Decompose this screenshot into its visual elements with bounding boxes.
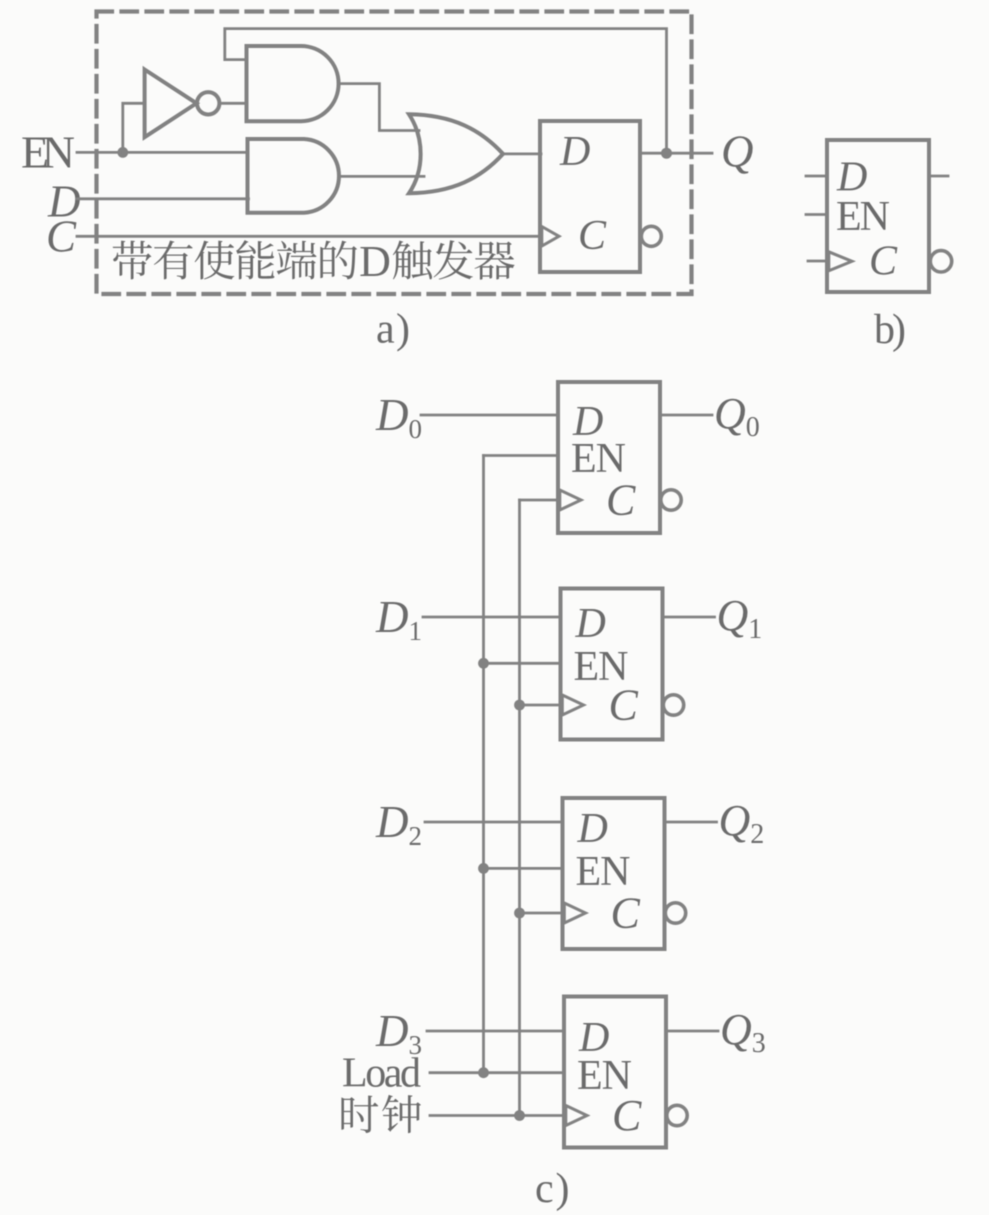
junction C bus node FF3 bbox=[514, 1110, 525, 1121]
svg-text:C: C bbox=[606, 476, 636, 525]
C bus vertical wire bbox=[518, 500, 521, 1116]
wire Q1 output bbox=[663, 616, 715, 619]
wire clock input bbox=[430, 1114, 564, 1117]
junction EN bus node FF3 bbox=[478, 1067, 489, 1078]
D flip-flop FF1 box (register) bbox=[561, 589, 663, 740]
wire OR G4 output to FF1 D bbox=[503, 152, 541, 155]
wire D0 input bbox=[421, 414, 558, 417]
svg-text:D: D bbox=[559, 129, 590, 175]
FF1 clock edge triangle bbox=[542, 227, 559, 247]
D flip-flop FF2 box (register) bbox=[563, 798, 665, 949]
wire AND G2 output to OR G4 bbox=[339, 84, 419, 131]
FF0 inverted output bubble bbox=[661, 490, 681, 510]
svg-text:D: D bbox=[359, 237, 391, 286]
junction Q node bbox=[661, 148, 672, 159]
caption: D flip-flop with enable (Chinese) bbox=[113, 241, 152, 280]
wire inverter bubble to AND G2 bbox=[220, 102, 248, 105]
AND gate G2 (top) bbox=[247, 46, 339, 121]
svg-text:C: C bbox=[612, 1091, 642, 1140]
wire feedback from Q to AND G2 input bbox=[225, 29, 667, 154]
junction EN bus node FF1 bbox=[478, 658, 489, 669]
D flip-flop FF3 box (register) bbox=[564, 997, 666, 1148]
wire D3 input bbox=[427, 1030, 564, 1033]
AND gate G3 (bottom) bbox=[248, 139, 339, 213]
wire D1 input bbox=[423, 616, 561, 619]
FF1 clock edge triangle bbox=[562, 695, 583, 715]
D flip-flop FF2 box (block b) bbox=[827, 140, 929, 292]
wire D2 input bbox=[425, 821, 563, 824]
FF2 stub D input bbox=[806, 175, 827, 178]
junction EN node bbox=[117, 147, 128, 158]
svg-text:D: D bbox=[575, 601, 606, 647]
FF2 stub EN input bbox=[806, 213, 827, 216]
dashed enclosure: D flip-flop with enable (block a) bbox=[97, 12, 692, 295]
wire AND G3 output to OR G4 bbox=[341, 175, 424, 178]
wire D input to AND G3 bbox=[77, 197, 249, 200]
D flip-flop FF1 box (block a) bbox=[540, 121, 640, 272]
svg-text:Load: Load bbox=[342, 1051, 421, 1097]
svg-text:C: C bbox=[611, 889, 641, 938]
label clock (Chinese) bbox=[341, 1096, 378, 1134]
wire Q0 output bbox=[660, 414, 712, 417]
wire EN row FF0 bbox=[484, 454, 559, 457]
inverter G1 triangle bbox=[145, 70, 197, 138]
svg-text:EN: EN bbox=[836, 194, 890, 240]
junction C bus node FF2 bbox=[514, 908, 525, 919]
FF1 inverted output bubble bbox=[663, 695, 683, 715]
wire C row FF0 bbox=[520, 499, 559, 502]
FF1 inverted output bubble bbox=[641, 226, 661, 246]
FF2 stub Q output bbox=[929, 175, 948, 178]
FF2 inverted output bubble bbox=[665, 903, 685, 923]
svg-text:c): c) bbox=[535, 1166, 570, 1212]
D flip-flop FF0 box (register) bbox=[558, 382, 660, 533]
wire Q3 output bbox=[666, 1030, 718, 1033]
FF2 clock edge triangle bbox=[829, 252, 852, 271]
wire EN row FF2 bbox=[484, 867, 563, 870]
svg-text:C: C bbox=[609, 681, 639, 730]
junction C bus node FF1 bbox=[514, 700, 525, 711]
svg-text:C: C bbox=[46, 212, 77, 262]
svg-text:C: C bbox=[869, 239, 898, 285]
FF2 clock edge triangle bbox=[564, 903, 585, 923]
wire Load input bbox=[430, 1071, 564, 1074]
FF2 stub C input bbox=[808, 260, 827, 263]
inverter G1 bubble bbox=[197, 92, 219, 114]
wire C row FF1 bbox=[520, 704, 561, 707]
wire C clock input to FF1 bbox=[77, 235, 540, 238]
junction EN bus node FF2 bbox=[478, 863, 489, 874]
wire EN up to inverter input bbox=[123, 103, 145, 152]
wire C row FF2 bbox=[520, 912, 563, 915]
EN bus vertical wire bbox=[482, 456, 485, 1073]
FF3 inverted output bubble bbox=[667, 1105, 687, 1125]
svg-text:Q: Q bbox=[721, 127, 754, 177]
svg-text:b): b) bbox=[874, 307, 906, 353]
wire EN to AND G3 bbox=[123, 151, 248, 154]
FF2 inverted output bubble bbox=[930, 251, 951, 272]
OR gate G4 bbox=[409, 114, 503, 193]
FF3 clock edge triangle bbox=[566, 1106, 587, 1126]
svg-text:D: D bbox=[577, 806, 608, 852]
svg-text:C: C bbox=[578, 213, 607, 259]
wire EN lead bbox=[77, 151, 123, 154]
wire EN row FF1 bbox=[484, 662, 561, 665]
wire Q output bbox=[640, 152, 712, 155]
FF0 clock edge triangle bbox=[560, 490, 581, 510]
svg-text:a): a) bbox=[376, 307, 410, 353]
svg-text:EN: EN bbox=[21, 127, 75, 178]
wire Q2 output bbox=[665, 821, 717, 824]
